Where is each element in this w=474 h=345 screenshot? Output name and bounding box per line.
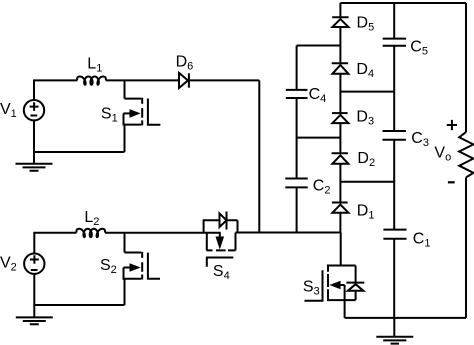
- label +: [447, 120, 457, 130]
- wire: [236, 232, 341, 234]
- wire: [340, 91, 394, 93]
- diode of S3: [345, 266, 365, 301]
- diode D1: [332, 203, 349, 213]
- wire: [296, 187, 298, 232]
- wire: [393, 239, 395, 318]
- wire: [106, 79, 179, 81]
- capacitor C3: [383, 131, 406, 140]
- transistor S1: [124, 80, 161, 152]
- diode D2: [332, 153, 349, 164]
- voltage source V1: [24, 100, 44, 120]
- wire: [296, 46, 298, 90]
- label -: [448, 181, 455, 183]
- capacitor C4: [286, 90, 308, 98]
- ground: [16, 305, 53, 324]
- wire: [393, 140, 395, 230]
- inductor L2: [76, 229, 105, 237]
- wire: [345, 317, 466, 319]
- wire: [297, 137, 341, 139]
- capacitor C5: [383, 39, 406, 46]
- capacitor C2: [285, 179, 307, 188]
- wire: [34, 233, 76, 254]
- ground: [376, 318, 413, 344]
- capacitor C1: [383, 230, 406, 239]
- wire: [393, 46, 395, 131]
- wire: [339, 123, 341, 153]
- wire: [340, 2, 466, 4]
- wire: [339, 164, 341, 203]
- wire: [339, 27, 341, 63]
- diode D3: [332, 113, 348, 123]
- ground: [16, 152, 53, 171]
- wire: [339, 3, 341, 17]
- wire: [393, 3, 395, 39]
- diode D5: [332, 17, 348, 27]
- diode D6: [179, 73, 189, 88]
- wire: [339, 74, 341, 113]
- wire: [189, 79, 259, 81]
- transistor S4: [206, 233, 236, 267]
- wire: [296, 98, 298, 179]
- wire: [339, 213, 341, 233]
- voltage source V2: [24, 254, 44, 274]
- inductor L1: [77, 77, 106, 85]
- wire: [258, 80, 260, 232]
- transistor S3: [305, 233, 356, 318]
- diode of S4: [204, 212, 238, 233]
- transistor S2: [124, 233, 161, 305]
- wire: [297, 45, 341, 47]
- wire: [465, 3, 467, 132]
- wire: [34, 274, 124, 305]
- diode D4: [332, 63, 349, 74]
- wire: [34, 120, 125, 152]
- wire: [34, 80, 77, 100]
- resistor RL: [459, 132, 473, 177]
- wire: [105, 232, 221, 234]
- wire: [465, 178, 467, 318]
- wire: [340, 181, 394, 183]
